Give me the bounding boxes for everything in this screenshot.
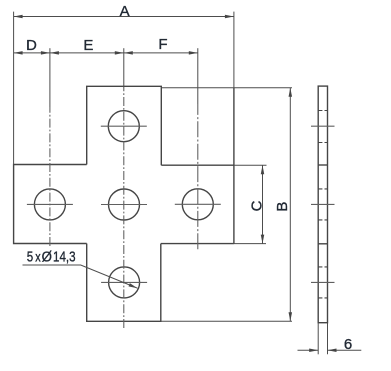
svg-text:x: x: [35, 248, 40, 264]
svg-text:Ø: Ø: [42, 249, 53, 266]
svg-text:A: A: [120, 3, 130, 20]
svg-text:B: B: [274, 202, 291, 212]
svg-text:6: 6: [344, 336, 352, 353]
svg-text:5: 5: [27, 249, 33, 266]
svg-text:14,3: 14,3: [53, 249, 76, 266]
svg-text:F: F: [158, 36, 167, 53]
svg-text:E: E: [83, 37, 93, 54]
svg-text:D: D: [26, 37, 37, 54]
svg-text:C: C: [248, 200, 265, 211]
